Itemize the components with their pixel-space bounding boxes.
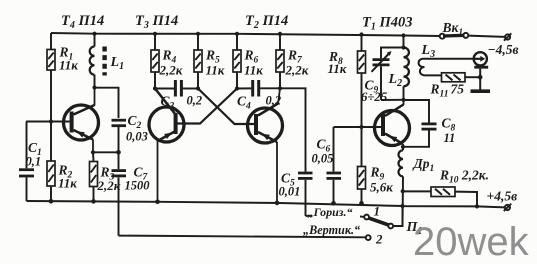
- svg-text:5,6к: 5,6к: [370, 180, 393, 195]
- node: L1 top junction: [92, 32, 96, 36]
- resistor R9: [358, 127, 394, 203]
- capacitor C2: [112, 113, 148, 152]
- svg-text:+4,5в: +4,5в: [487, 189, 518, 204]
- wire: Goriz line: [306, 215, 365, 218]
- transistor Q4 (T4 P14): [64, 88, 99, 153]
- wire: T4 base line: [26, 121, 70, 123]
- node: +4.5V junction: [475, 204, 479, 208]
- svg-text:1: 1: [374, 204, 381, 219]
- label T4 P14: [61, 13, 104, 31]
- wire: cross-coupling C4 to T3 base: [178, 89, 238, 124]
- node: R7 top junction: [278, 32, 282, 36]
- wire: L1 bottom to C2 column: [95, 88, 119, 118]
- capacitor C7: [112, 152, 151, 235]
- svg-text:0,05: 0,05: [312, 152, 334, 166]
- capacitor C9 (trimmer): [361, 48, 404, 104]
- svg-text:0,1: 0,1: [26, 155, 42, 169]
- wire: C9 bottom to collector node: [381, 99, 404, 101]
- switch Vk1: [440, 20, 505, 39]
- node: T2 emitter bottom junction: [275, 201, 280, 206]
- svg-text:11к: 11к: [59, 58, 78, 73]
- transistor Q1 (T1 P403): [375, 100, 410, 147]
- transistor Q3 (T3 P14) mirrored: [149, 89, 184, 202]
- node: R4 top junction: [153, 32, 157, 36]
- node: T1 collector junction: [401, 98, 405, 102]
- node: R5 top junction: [196, 32, 200, 36]
- wire: emitter to C2/C7 column: [93, 151, 119, 153]
- wire: Vertik line to switch contact 2: [119, 236, 366, 238]
- capacitor C1: [19, 122, 42, 202]
- label T3 P14: [135, 13, 178, 31]
- svg-text:Т3 П14: Т3 П14: [135, 13, 178, 31]
- svg-text:Т2 П14: Т2 П14: [245, 13, 288, 31]
- resistor R8: [328, 35, 366, 128]
- ground: [471, 89, 491, 93]
- terminal -4.5V: [488, 33, 519, 57]
- node: R11/jack junction: [478, 75, 483, 80]
- node: C2 bottom junction: [116, 150, 121, 155]
- inductor L3: [419, 43, 474, 75]
- transistor Q2 (T2 P14): [248, 88, 283, 202]
- svg-text:0,03: 0,03: [126, 130, 148, 144]
- resistor R5: [194, 34, 225, 89]
- inductor L1: [90, 34, 124, 88]
- node: R6 top junction: [235, 32, 239, 36]
- svg-text:Т1 П403: Т1 П403: [362, 15, 413, 33]
- node: C4/R6 junction: [235, 86, 239, 90]
- svg-text:6÷25: 6÷25: [361, 90, 388, 104]
- node: Dr1 bottom / R10 junction: [401, 189, 405, 193]
- node: T4 emitter junction: [91, 150, 95, 154]
- resistor R2: [47, 122, 77, 202]
- node: tank branch junction: [401, 45, 405, 49]
- resistor R6: [233, 34, 263, 89]
- svg-text:11к: 11к: [328, 61, 347, 76]
- node: R9 bottom junction: [359, 201, 364, 206]
- svg-text:11к: 11к: [244, 63, 263, 78]
- label Vertik: [303, 223, 360, 237]
- resistor R10: [403, 168, 489, 207]
- node: R3 bottom junction: [91, 199, 96, 204]
- wire: rail to +4.5V terminal: [403, 205, 478, 207]
- resistor R3: [90, 152, 121, 201]
- wire: T1 base line: [334, 126, 382, 128]
- node: T4 collector junction: [92, 85, 96, 89]
- node: C3/R5 junction: [196, 86, 200, 90]
- svg-text:11к: 11к: [58, 176, 77, 191]
- node: T2 collector junction: [278, 86, 282, 90]
- label Goriz: [308, 205, 353, 219]
- wire: rail to tank: [403, 36, 405, 48]
- switch P1 wire: pivot drop: [393, 206, 402, 226]
- antenna jack (lamp symbol): [473, 52, 489, 89]
- svg-text:Т4 П14: Т4 П14: [61, 13, 104, 31]
- node: C6 bottom junction: [331, 201, 336, 206]
- resistor R4: [151, 34, 183, 89]
- svg-text:2,2к: 2,2к: [159, 63, 183, 78]
- inductor Dr1 (choke): [399, 147, 435, 226]
- label switch position 2: [375, 232, 383, 247]
- resistor R7: [276, 34, 309, 88]
- terminal +4.5V: [477, 189, 517, 212]
- svg-text:2: 2: [375, 232, 383, 247]
- capacitor C5: [279, 88, 313, 216]
- capacitor C4: [237, 80, 281, 112]
- node: R2 bottom junction: [49, 199, 54, 204]
- label T1 P403: [362, 15, 413, 33]
- svg-text:„Гориз.“: „Гориз.“: [308, 205, 353, 219]
- svg-text:0,01: 0,01: [279, 185, 301, 199]
- node: rail end junction: [400, 204, 404, 208]
- node: T1 base junction: [359, 125, 363, 129]
- inductor L2: [388, 48, 409, 100]
- svg-text:20wek: 20wek: [413, 220, 530, 264]
- wire: top supply rail: [51, 33, 440, 36]
- wire: bottom common rail: [27, 201, 403, 206]
- node: R8 top junction: [359, 32, 363, 36]
- svg-text:0,2: 0,2: [187, 94, 203, 108]
- node: tank top junction: [401, 33, 405, 37]
- svg-text:„Вертик.“: „Вертик.“: [303, 223, 360, 237]
- resistor R1: [47, 33, 78, 122]
- node: T1 emitter junction: [401, 145, 405, 149]
- node: T3 collector junction: [153, 86, 157, 90]
- label T2 P14: [245, 13, 288, 31]
- node: T4 base junction: [49, 119, 53, 123]
- node: T3 emitter bottom junction: [155, 200, 160, 205]
- svg-text:−4,5в: −4,5в: [488, 42, 519, 57]
- svg-text:11: 11: [444, 131, 456, 145]
- switch P1: [364, 215, 422, 240]
- svg-text:2,2к: 2,2к: [97, 178, 121, 193]
- svg-text:1500: 1500: [125, 179, 151, 193]
- wire: cross-coupling C3 to T2 base: [198, 89, 254, 125]
- resistor R11: [430, 73, 481, 100]
- capacitor C3: [155, 80, 202, 112]
- svg-text:11к: 11к: [206, 63, 225, 78]
- svg-text:2,2к: 2,2к: [285, 63, 309, 78]
- label switch position 1: [374, 204, 381, 219]
- capacitor C6: [312, 127, 342, 203]
- capacitor C8: [403, 100, 456, 147]
